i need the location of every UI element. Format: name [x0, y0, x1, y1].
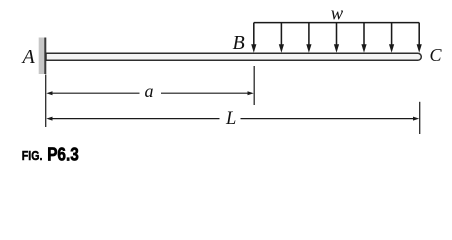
svg-text:L: L — [225, 109, 236, 129]
svg-text:B: B — [233, 32, 245, 54]
load arrow 7 — [417, 23, 422, 53]
dimension a: left arrow — [46, 91, 139, 95]
dimension a: right arrow — [161, 91, 254, 95]
dimension L: left arrow — [46, 117, 219, 121]
load arrow 1 — [251, 23, 256, 53]
svg-text:FIG.: FIG. — [22, 149, 43, 163]
beam A to C — [46, 53, 421, 60]
extension tick at B — [253, 66, 255, 105]
svg-text:w: w — [331, 4, 344, 24]
load arrow 4 — [334, 23, 339, 53]
load arrow 6 — [389, 23, 394, 53]
svg-text:P6.3: P6.3 — [47, 145, 79, 165]
distributed load top line — [254, 22, 419, 24]
svg-text:A: A — [21, 46, 36, 68]
dimension L: right arrow — [241, 117, 420, 121]
extension tick at A — [45, 75, 47, 128]
extension tick at L end — [419, 102, 421, 134]
figure caption FIG. P6.3 — [22, 145, 79, 165]
load arrow 3 — [306, 23, 311, 53]
load arrow 5 — [361, 23, 366, 53]
fixed support wall at A — [39, 38, 46, 75]
svg-text:C: C — [430, 45, 443, 65]
load arrow 2 — [279, 23, 284, 53]
svg-text:a: a — [145, 81, 154, 101]
